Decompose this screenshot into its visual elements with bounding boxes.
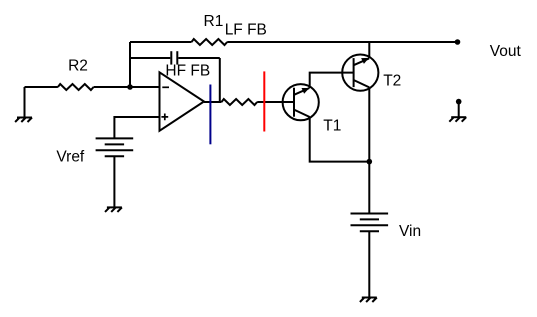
svg-text:T2: T2: [383, 73, 401, 90]
svg-text:HF FB: HF FB: [165, 62, 210, 79]
svg-text:Vout: Vout: [490, 43, 522, 60]
svg-text:R2: R2: [68, 58, 88, 75]
svg-text:LF FB: LF FB: [225, 22, 267, 39]
svg-text:Vref: Vref: [56, 149, 85, 166]
svg-text:Vin: Vin: [399, 223, 421, 240]
svg-text:R1: R1: [204, 13, 224, 30]
svg-text:T1: T1: [323, 118, 341, 135]
